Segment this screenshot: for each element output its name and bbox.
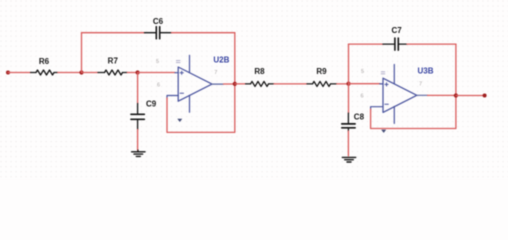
op-amp U3B triangle [383,78,417,112]
svg-text:R6: R6 [39,57,50,66]
svg-text:R8: R8 [254,67,265,76]
wire top rail right of C6 [172,32,235,34]
op-amp 2 minus input stub [371,107,383,110]
svg-text:5: 5 [361,69,364,75]
op-amp U2B triangle [178,67,212,101]
top power marker 2 [381,72,385,74]
svg-text:R7: R7 [108,57,119,66]
resistor R7 [98,70,127,75]
svg-text:5: 5 [156,59,159,65]
node C junction [346,82,350,86]
svg-text:7: 7 [214,70,217,76]
ground (stage 1) [132,150,145,156]
wire node to R8 [235,83,246,85]
wire output stub 2 to node [428,94,456,96]
op-amp plus mark [180,71,183,74]
svg-text:C6: C6 [153,17,164,26]
op-amp minus mark [180,92,183,94]
op-amp minus input stub [167,96,178,99]
op-amp top power pin [189,55,191,72]
resistor R9 [307,81,337,86]
wire feedback rail down to output node [234,33,236,84]
output terminal node [483,94,487,98]
wire node C up to feedback rail [348,44,350,84]
op-amp 2 minus mark [385,103,388,105]
output node junction (stage 1) [233,82,237,86]
wire C8 to ground [347,131,349,156]
capacitor C7 [383,38,407,50]
feedback wire 2 from minus input around to output [371,96,456,129]
wire node B to op-amp + input [138,72,175,74]
wire to output terminal [456,95,485,97]
top power marker [176,61,180,63]
output node junction (stage 2) [454,93,458,97]
wire top rail 2 left of C7 [349,43,384,45]
wire node C to op-amp 2 + input [349,83,380,85]
resistor R6 [31,70,58,75]
capacitor C9 [131,104,144,130]
wire R9 to node C [337,83,349,85]
capacitor C6 [145,27,172,39]
wire C8 branch down from node C [348,84,350,114]
svg-text:6: 6 [361,94,364,100]
input terminal node [6,71,10,75]
capacitor C8 [342,113,355,131]
op-amp 2 output stub [417,94,428,96]
wire R8 to R9 [274,83,307,85]
svg-text:C9: C9 [146,100,157,109]
node B junction [136,70,140,74]
wire input to R6 [8,72,31,74]
svg-text:6: 6 [157,83,160,89]
op-amp output stub [212,83,224,85]
resistor R8 [246,81,274,86]
wire node A to R7 [82,72,99,74]
wire feedback rail 2 down to output node [455,44,457,95]
op-amp + input stub [175,72,178,74]
svg-text:C8: C8 [354,113,365,122]
svg-text:U3B: U3B [418,66,434,75]
wire top rail left of C6 [82,32,145,34]
wire node A up to feedback rail [81,33,83,73]
bottom power marker 2 (small down triangle) [381,130,386,133]
op-amp 2 bottom power pin [393,107,395,124]
op-amp 2 plus mark [385,83,388,86]
wire R6 to node A [58,72,82,74]
feedback wire from minus input around to output [167,84,235,133]
wire top rail 2 right of C7 [407,43,456,45]
svg-text:C7: C7 [391,26,402,35]
svg-text:R9: R9 [316,67,327,76]
wire output stub to node [224,83,235,85]
bottom power marker (small down triangle) [177,119,182,122]
node A junction [79,70,83,74]
op-amp bottom power pin [189,95,191,112]
wire C9 branch down from node B [137,73,139,104]
svg-text:7: 7 [419,82,422,88]
op-amp 2 top power pin [393,65,395,84]
op-amp 2 + input stub [380,83,383,85]
ground (stage 2) [342,157,355,162]
wire R7 to node B [127,72,137,74]
wire C9 to ground [137,130,139,151]
svg-text:U2B: U2B [213,56,229,65]
